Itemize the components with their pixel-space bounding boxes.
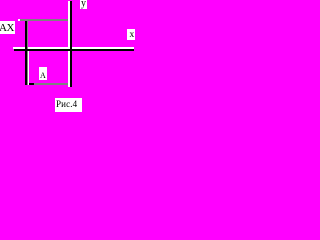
- x-axis: [14, 49, 134, 51]
- rectangle left edge gray shadow (upper): [27, 21, 28, 49]
- caption Рис.4: [55, 98, 82, 112]
- rectangle top edge (gray): [20, 19, 68, 21]
- label A: [39, 67, 47, 80]
- label y: [80, 0, 87, 9]
- x-axis white halo: [13, 47, 134, 49]
- rectangle top edge white end cap: [18, 19, 20, 21]
- rectangle left edge (black): [25, 21, 27, 85]
- rectangle bottom edge (gray): [34, 83, 68, 85]
- label x: [127, 29, 135, 40]
- rectangle bottom edge black segment: [29, 83, 34, 85]
- y-axis: [70, 1, 72, 87]
- y-axis white halo: [68, 1, 70, 87]
- rectangle left edge white halo below axis: [28, 51, 29, 85]
- rectangle left edge gray shadow (lower): [27, 51, 28, 85]
- label AX: [0, 21, 15, 34]
